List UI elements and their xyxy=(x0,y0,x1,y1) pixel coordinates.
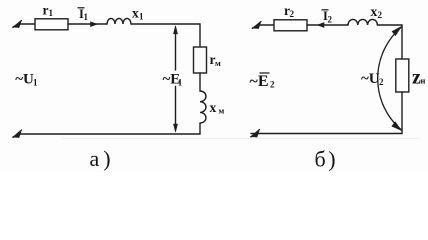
wire right corner down to load xyxy=(401,25,403,59)
wire xm to bottom xyxy=(199,123,201,134)
current arrow I2 (points left) xyxy=(318,23,325,28)
svg-text:а): а) xyxy=(90,146,115,171)
svg-text:н: н xyxy=(421,76,426,86)
resistor R1 xyxy=(35,19,68,30)
svg-text:x: x xyxy=(210,100,217,115)
svg-text:1: 1 xyxy=(49,8,54,18)
svg-text:1: 1 xyxy=(139,12,144,22)
svg-text:2: 2 xyxy=(290,9,295,19)
label r2 xyxy=(284,3,295,19)
svg-text:2: 2 xyxy=(270,80,275,90)
terminal arrow output bottom-left (circuit a) xyxy=(13,130,22,138)
svg-text:2: 2 xyxy=(378,10,383,20)
E1 voltage arrow (double headed, vertical) xyxy=(174,26,178,132)
label xm xyxy=(210,100,225,116)
svg-text:1: 1 xyxy=(33,78,38,88)
svg-text:2: 2 xyxy=(328,15,333,25)
label ~E1 xyxy=(163,72,183,88)
U2 voltage arc arrow (double headed, bulging left) xyxy=(378,27,402,131)
load impedance Zn box xyxy=(396,59,409,92)
wire coil x2 to corner xyxy=(377,24,402,26)
svg-text:1: 1 xyxy=(178,78,183,88)
terminal arrow output bottom-left (circuit b) xyxy=(251,130,260,138)
wire coil to corner xyxy=(131,23,200,25)
svg-text:~E: ~E xyxy=(250,73,269,90)
faint scan shadow line xyxy=(62,138,420,140)
label zn xyxy=(412,67,426,89)
svg-text:м: м xyxy=(219,106,225,116)
label ~E2 with overbar xyxy=(250,73,276,90)
svg-text:м: м xyxy=(215,58,221,68)
inductor x1 xyxy=(107,18,131,24)
label x1 xyxy=(132,6,144,22)
svg-text:~U: ~U xyxy=(361,71,380,87)
svg-text:1: 1 xyxy=(84,12,89,22)
wire top-left b xyxy=(259,24,275,26)
svg-text:x: x xyxy=(132,6,139,21)
label ~U2 xyxy=(361,71,384,87)
label x2 xyxy=(371,4,383,20)
wire R2 to coil x2 xyxy=(307,24,348,26)
resistor R2 xyxy=(274,20,307,31)
label I2 with overbar xyxy=(322,9,333,25)
wire corner down xyxy=(199,24,201,47)
label rm xyxy=(210,52,222,68)
wire load to bottom xyxy=(401,92,403,134)
current arrow I1 xyxy=(91,22,98,27)
label I1 with overbar xyxy=(78,7,89,22)
terminal arrow input top-left (circuit a) xyxy=(13,21,22,28)
resistor Rm xyxy=(194,47,207,73)
label r1 xyxy=(43,3,54,19)
svg-text:x: x xyxy=(371,4,378,19)
wire Rm to coil xm xyxy=(199,73,201,91)
bottom wire a xyxy=(19,133,200,135)
wire top-left a xyxy=(19,23,35,25)
wire R1 to coil xyxy=(68,23,107,25)
label ~U1 xyxy=(15,72,38,88)
inductor x2 xyxy=(348,19,377,25)
bottom wire b xyxy=(251,133,402,135)
svg-text:б): б) xyxy=(315,147,339,172)
svg-text:2: 2 xyxy=(379,77,384,87)
svg-text:~U: ~U xyxy=(15,72,34,88)
terminal arrow input top-left (circuit b) xyxy=(252,22,261,29)
inductor xm xyxy=(200,91,206,123)
